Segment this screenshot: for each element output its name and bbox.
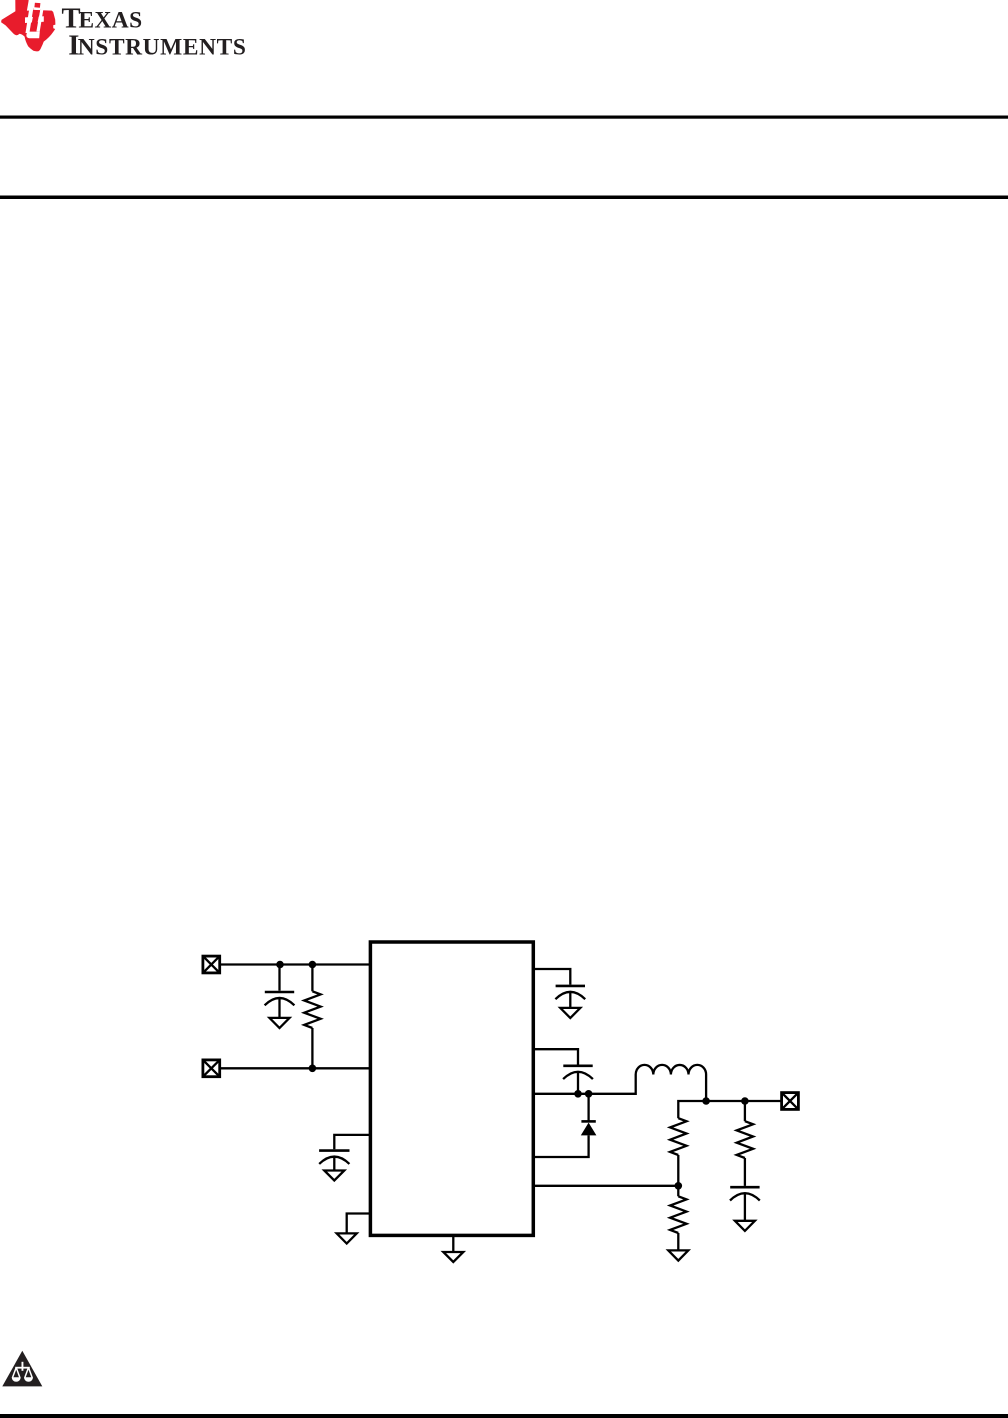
wire SW pin to inductor [533, 1075, 635, 1094]
ground below C3 [324, 1171, 344, 1181]
node output cap junction [741, 1097, 749, 1105]
resistor R4 feedback lower [670, 1186, 686, 1251]
svg-text:NSTRUMENTS: NSTRUMENTS [78, 35, 247, 61]
svg-text:EXAS: EXAS [79, 8, 143, 34]
node EN node dot [309, 1065, 317, 1073]
legal scales icon [2, 1351, 42, 1387]
op-amp U1 regulator IC body [370, 942, 533, 1235]
diode D1 catch [533, 1094, 596, 1157]
capacitor C5 output [730, 1187, 760, 1221]
wire output node [678, 1101, 780, 1118]
bottom bar [0, 1414, 1008, 1418]
capacitor C2 bootstrap [533, 1049, 593, 1094]
resistor R2 feedback upper [670, 1118, 686, 1186]
ground below C5 [735, 1221, 755, 1231]
node BOOT-SW junction [574, 1090, 582, 1098]
header rule upper [0, 116, 1008, 119]
node input node dot B [309, 961, 317, 969]
ground below C1 [270, 1018, 290, 1028]
capacitor C4 on top right pin [533, 969, 585, 1008]
wire EN to pin [221, 1067, 371, 1069]
resistor R3 output ESR [737, 1101, 753, 1186]
ground below C4 [560, 1008, 580, 1018]
terminal EN input [203, 1060, 220, 1077]
wire VIN to pin [221, 963, 371, 965]
node input node dot A [276, 961, 284, 969]
ground PowerPAD bottom pin [443, 1237, 463, 1262]
inductor L1 [636, 1065, 706, 1101]
terminal VOUT output [782, 1093, 799, 1110]
resistor R1 input divider [304, 965, 320, 1069]
TI logo red Texas-state emblem [1, 0, 55, 51]
node inductor-output junction [702, 1097, 710, 1105]
ground on left pin AGND [337, 1214, 370, 1244]
TI logo wordmark TEXAS INSTRUMENTS [62, 4, 247, 62]
ground below R4 [668, 1250, 688, 1260]
node SW-diode junction [585, 1090, 593, 1098]
node FB junction [675, 1182, 683, 1190]
wire FB pin to divider [533, 1185, 678, 1187]
capacitor C3 soft-start on left pin [319, 1135, 370, 1171]
terminal VIN input [203, 956, 220, 973]
capacitor C1 input bypass [265, 965, 295, 1018]
header rule lower [0, 196, 1008, 200]
